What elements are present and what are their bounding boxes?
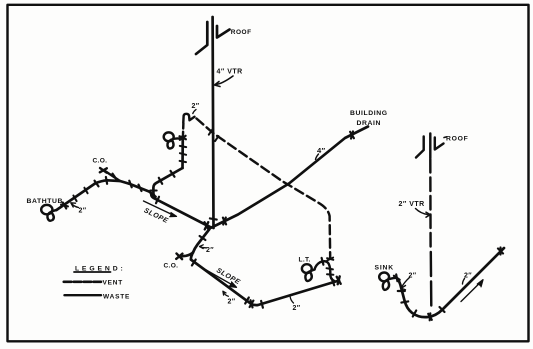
svg-text:BATHTUB: BATHTUB (27, 198, 64, 205)
svg-text:2″: 2″ (192, 103, 200, 110)
svg-text:ROOF: ROOF (231, 29, 252, 36)
svg-text:C.O.: C.O. (164, 263, 179, 270)
svg-text:BUILDING: BUILDING (350, 110, 388, 117)
svg-text:WASTE: WASTE (103, 293, 130, 300)
svg-text:2″: 2″ (293, 305, 301, 312)
svg-text:VENT: VENT (103, 280, 124, 287)
svg-text:2″: 2″ (464, 273, 472, 280)
svg-text:2″: 2″ (409, 273, 417, 280)
svg-text:C.O.: C.O. (93, 158, 108, 165)
svg-text:SINK: SINK (375, 264, 394, 271)
svg-text:2″ VTR: 2″ VTR (399, 201, 425, 208)
svg-text:L E G E N D :: L E G E N D : (75, 265, 123, 272)
svg-text:4″: 4″ (317, 146, 326, 155)
svg-text:DRAIN: DRAIN (357, 120, 382, 127)
svg-text:2″: 2″ (228, 299, 236, 306)
svg-text:ROOF: ROOF (446, 135, 468, 142)
svg-text:2″: 2″ (206, 247, 214, 254)
svg-text:4″ VTR: 4″ VTR (217, 69, 243, 76)
svg-text:L.T.: L.T. (299, 257, 311, 264)
svg-text:2″: 2″ (79, 208, 87, 215)
